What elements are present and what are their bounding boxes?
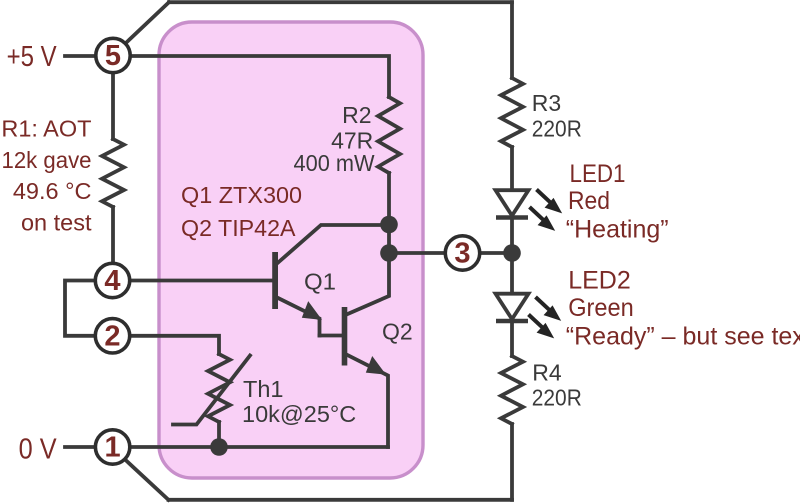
node 1 — [95, 430, 129, 464]
wire R2 to upper junction — [387, 173, 391, 225]
wire +5V label to node 5 — [65, 54, 94, 58]
wire 0V label to node 1 — [65, 445, 93, 449]
LED2 diode symbol — [496, 294, 529, 321]
wire R4 down to bottom rail — [510, 424, 514, 500]
node 2 — [95, 319, 129, 353]
transistor Q1 collector wire — [277, 225, 389, 264]
svg-text:R1: AOT: R1: AOT — [1, 116, 91, 142]
wire LED2 to R4 — [510, 321, 514, 356]
svg-text:Q1: Q1 — [304, 269, 336, 295]
svg-text:3: 3 — [454, 238, 470, 270]
svg-text:“Ready” – but see text: “Ready” – but see text — [566, 323, 800, 351]
svg-text:R4: R4 — [532, 359, 562, 385]
svg-text:220R: 220R — [532, 385, 582, 411]
svg-text:R3: R3 — [532, 90, 561, 116]
junction dot lower (Q2 collector/node3) — [380, 244, 398, 262]
svg-text:10k@25°C: 10k@25°C — [242, 401, 356, 427]
resistor R3 — [501, 78, 523, 147]
wire 0V rail diagonal up to node 1 — [126, 461, 168, 500]
wire between junction dots — [387, 225, 391, 254]
wire Th1 to 0V rail — [217, 422, 221, 447]
wire node 4 loop to node 2 — [65, 281, 93, 336]
transistor Q1 emitter wire — [277, 298, 320, 336]
svg-text:Q1 ZTX300: Q1 ZTX300 — [181, 182, 302, 208]
svg-text:Green: Green — [568, 294, 634, 322]
wire top +5V rail horizontal — [169, 0, 512, 4]
node 4 — [95, 263, 129, 297]
svg-text:R2: R2 — [342, 102, 371, 128]
svg-text:0 V: 0 V — [19, 433, 57, 465]
wire node 1 to Q2 emitter — [132, 445, 388, 449]
transistor Q2 collector wire — [347, 253, 390, 315]
junction dot LED column — [503, 244, 521, 262]
wire R1 to node 4 — [111, 207, 115, 261]
wire node 2 to Th1 — [132, 336, 219, 354]
junction dot upper (R2/Q1 collector) — [380, 216, 398, 234]
wire LED1 to node3 dot — [510, 218, 514, 253]
thermistor Th1 diagonal stroke — [173, 356, 250, 425]
wire node3 dot to node 3 circle — [398, 251, 444, 255]
wire node 5 down to R1 — [111, 75, 115, 139]
wire node 3 circle to LED column — [482, 251, 512, 255]
resistor R2 — [378, 97, 400, 173]
svg-text:5: 5 — [105, 40, 121, 72]
resistor R4 — [501, 356, 523, 424]
svg-text:12k gave: 12k gave — [2, 147, 92, 173]
transistor Q2 emitter arrow — [367, 357, 385, 373]
transistor Q2 bar — [342, 307, 348, 366]
svg-text:Th1: Th1 — [243, 376, 284, 402]
node 5 — [96, 38, 130, 72]
transistor Q2 base wire — [320, 334, 342, 338]
svg-text:+5 V: +5 V — [7, 41, 57, 73]
LED1 light arrows — [530, 190, 561, 230]
wire R3 to LED1 — [510, 147, 514, 190]
svg-text:400 mW: 400 mW — [294, 150, 375, 176]
svg-text:“Heating”: “Heating” — [566, 216, 669, 244]
svg-text:4: 4 — [104, 265, 120, 297]
svg-text:Red: Red — [568, 187, 610, 215]
resistor R1 — [102, 139, 124, 207]
transistor Q1 bar — [272, 252, 278, 309]
wire node3 dot to LED2 — [510, 253, 514, 293]
svg-text:on test: on test — [21, 210, 92, 236]
wire node 5 to R2 top corner — [132, 56, 389, 97]
thermistor Th1 zigzag — [208, 354, 230, 422]
wire +5V rail diagonal from node 5 to top — [127, 2, 169, 42]
LED2 light arrows — [529, 297, 560, 337]
svg-text:Q2: Q2 — [382, 319, 413, 345]
wire bottom 0V rail horizontal — [169, 498, 513, 502]
transistor Q1 emitter arrow — [303, 303, 321, 319]
transistor Q2 emitter wire — [347, 355, 389, 448]
node 3 — [445, 236, 479, 270]
svg-text:LED1: LED1 — [570, 160, 626, 188]
wire right column from top rail down to R3 — [510, 2, 514, 78]
svg-text:LED2: LED2 — [568, 266, 631, 294]
svg-text:1: 1 — [105, 432, 121, 464]
svg-text:Q2 TIP42A: Q2 TIP42A — [181, 215, 296, 241]
svg-text:220R: 220R — [532, 116, 582, 142]
svg-text:49.6 °C: 49.6 °C — [13, 178, 92, 204]
heated-part pink region — [159, 22, 423, 478]
LED1 diode symbol — [496, 190, 529, 217]
wire node 4 to Q1 base — [132, 279, 272, 283]
junction dot Th1/0V — [210, 438, 228, 456]
svg-text:2: 2 — [104, 321, 120, 353]
